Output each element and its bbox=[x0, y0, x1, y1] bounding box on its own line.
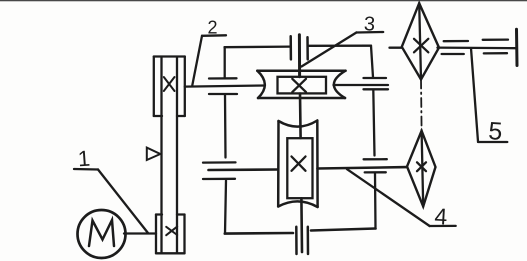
output bearing right bbox=[483, 40, 508, 54]
motor shaft bbox=[124, 232, 156, 234]
output shaft end bar bbox=[515, 29, 519, 65]
label 2 bbox=[192, 18, 226, 86]
output bearing left bbox=[442, 41, 468, 54]
label 3 bbox=[302, 13, 384, 66]
pulley P1 (upper, on shaft I) bbox=[154, 57, 185, 117]
gearbox housing top wall bbox=[225, 45, 290, 48]
sprocket/bevel wheel W2 (bottom, on shaft II) bbox=[407, 131, 436, 207]
gearbox housing left wall bbox=[224, 47, 226, 77]
shaft II (horizontal, lower) bbox=[209, 168, 278, 171]
bearing shaft I right bbox=[364, 78, 389, 89]
worm gear element 4 (on vertical shaft / wheel on shaft II) bbox=[278, 121, 317, 208]
label 5 bbox=[471, 48, 507, 146]
belt line left bbox=[160, 57, 162, 253]
label 4 bbox=[347, 169, 456, 230]
gearbox housing bottom wall bbox=[225, 232, 293, 235]
bearing vertical shaft bottom bbox=[296, 227, 308, 254]
belt direction arrow bbox=[147, 148, 161, 160]
label 1 bbox=[74, 146, 148, 233]
chain/link line between W1 and W2 (dash-dot) bbox=[420, 80, 423, 131]
output shaft bbox=[437, 46, 515, 49]
svg-text:1: 1 bbox=[77, 146, 91, 172]
worm gear element 3 (on shaft I / wheel on vertical shaft) bbox=[257, 71, 345, 98]
bearing shaft II left bbox=[203, 162, 236, 179]
bearing shaft II right bbox=[364, 159, 387, 172]
motor M bbox=[78, 210, 126, 258]
bearing shaft I left bbox=[209, 78, 237, 94]
bearing vertical shaft top bbox=[291, 36, 308, 59]
sprocket/bevel wheel W1 (top, on output shaft) bbox=[402, 3, 439, 79]
belt line right bbox=[176, 57, 178, 253]
vertical shaft (worm shaft) bbox=[298, 35, 301, 77]
shaft I (horizontal, upper) bbox=[185, 86, 265, 87]
pulley P2 (lower, on motor shaft) bbox=[156, 215, 185, 254]
gearbox housing right wall bbox=[371, 46, 373, 78]
shaft stub left of W1 bbox=[390, 47, 402, 49]
scan edge line (top border artifact) bbox=[0, 0, 527, 2]
